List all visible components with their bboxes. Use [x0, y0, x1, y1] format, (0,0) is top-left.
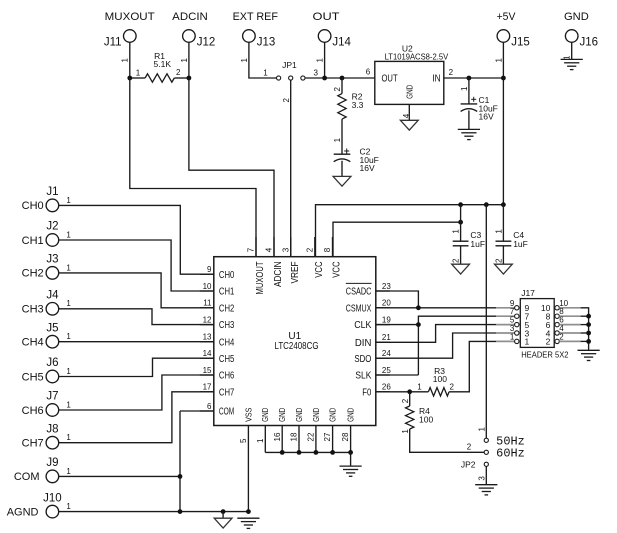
- ground C4: [495, 264, 513, 274]
- pin 5 VSS U1 bottom stub: [247, 426, 249, 512]
- svg-text:12: 12: [203, 315, 212, 324]
- connector J4: [46, 303, 59, 316]
- wire MUXOUT net: [130, 78, 256, 257]
- pin 19 CLK U1 right stub: [376, 324, 390, 326]
- jumper JP2 pin 1: [484, 438, 488, 442]
- svg-text:1: 1: [401, 429, 410, 434]
- pin 16 GND U1 bottom stub: [281, 426, 283, 453]
- svg-text:1: 1: [66, 332, 71, 341]
- junction GND bus: [330, 450, 335, 455]
- pin 2 J17 right stub: [559, 340, 580, 342]
- pin 10 J17 circle: [555, 306, 559, 310]
- svg-text:4: 4: [402, 113, 411, 118]
- pin 12 CH3 U1 left stub: [200, 324, 214, 326]
- pin 4 J17 right stub: [559, 332, 580, 334]
- svg-text:GND: GND: [564, 11, 589, 23]
- connector J12: [183, 30, 196, 43]
- wire R2 top lead: [341, 78, 343, 94]
- wire CH3 net: [59, 309, 214, 325]
- junction J17 bus: [586, 331, 591, 336]
- connector J10: [46, 505, 59, 518]
- pin 7 J17 left stub: [496, 315, 515, 317]
- svg-text:100: 100: [433, 374, 447, 384]
- ground C3: [452, 264, 470, 274]
- wire J12 to R1 node: [188, 42, 190, 78]
- pin 9 CH0 U1 left stub: [200, 273, 214, 275]
- svg-text:OUT: OUT: [313, 11, 340, 23]
- svg-text:J11: J11: [104, 36, 122, 48]
- junction C1 node: [467, 76, 472, 81]
- svg-text:21: 21: [382, 333, 391, 342]
- svg-text:CH3: CH3: [219, 320, 235, 331]
- svg-text:F0: F0: [362, 387, 371, 398]
- pin 5 J17 left stub: [496, 324, 515, 326]
- wire JP1 pin2 to VREF: [290, 80, 292, 257]
- pin 26 F0 U1 right stub: [376, 391, 390, 393]
- wire J17 pin to bus: [581, 332, 589, 334]
- pin 3 J17 left stub: [496, 332, 515, 334]
- wire C3 bottom lead: [460, 246, 462, 264]
- svg-text:CH7: CH7: [219, 387, 235, 398]
- connector J2: [46, 234, 59, 247]
- wire J14 down: [324, 42, 326, 78]
- svg-text:J6: J6: [46, 357, 58, 369]
- svg-text:SLK: SLK: [355, 371, 371, 382]
- svg-text:3: 3: [478, 476, 487, 481]
- jumper JP1 pin 2: [289, 76, 293, 80]
- svg-text:J4: J4: [46, 290, 59, 302]
- junction AGND ground: [221, 509, 226, 514]
- svg-text:16: 16: [273, 432, 282, 441]
- svg-text:1: 1: [510, 332, 515, 341]
- wire J11 to R1 node: [129, 42, 131, 78]
- svg-text:16V: 16V: [479, 112, 494, 122]
- resistor R4: [406, 406, 414, 429]
- svg-text:19: 19: [382, 315, 391, 324]
- svg-text:VREF: VREF: [290, 262, 301, 284]
- pin 11 CH2 U1 left stub: [200, 307, 214, 309]
- wire R4 to JP2: [410, 429, 485, 452]
- junction J17 bus: [586, 339, 591, 344]
- connector J16: [565, 30, 578, 43]
- svg-text:LTC2408CG: LTC2408CG: [275, 341, 319, 352]
- svg-text:COM: COM: [14, 471, 40, 483]
- svg-text:J12: J12: [197, 36, 216, 48]
- junction +5V node: [501, 76, 506, 81]
- svg-text:ADCIN: ADCIN: [273, 262, 284, 288]
- wire VCC rail lower: [333, 222, 461, 257]
- svg-text:CH1: CH1: [219, 287, 235, 298]
- wire R2 to C2: [341, 119, 343, 154]
- pin 6 J17 circle: [555, 322, 559, 326]
- svg-text:OUT: OUT: [382, 73, 398, 84]
- svg-text:8: 8: [323, 247, 332, 252]
- svg-text:GND: GND: [311, 408, 321, 422]
- svg-text:1: 1: [66, 400, 71, 409]
- connector J14: [318, 30, 331, 43]
- svg-text:CH5: CH5: [219, 354, 235, 365]
- svg-text:20: 20: [382, 299, 391, 308]
- pin 21 DIN U1 right stub: [376, 341, 390, 343]
- pin 3 VREF U1 top stub: [290, 237, 292, 257]
- svg-text:2: 2: [282, 98, 291, 103]
- svg-text:27: 27: [323, 432, 332, 441]
- svg-text:J14: J14: [332, 36, 351, 48]
- svg-text:1uF: 1uF: [470, 239, 485, 249]
- wire SLK net: [376, 374, 419, 376]
- connector J5: [46, 335, 59, 348]
- svg-text:4: 4: [265, 247, 274, 252]
- wire COM vertical: [179, 411, 181, 512]
- jumper JP2 pin 3: [484, 462, 488, 466]
- svg-text:2: 2: [449, 68, 454, 77]
- wire ADCIN net: [189, 78, 274, 257]
- svg-text:1: 1: [256, 438, 265, 443]
- wire C1 to ground: [468, 111, 470, 130]
- svg-text:CH5: CH5: [22, 371, 44, 383]
- pin 13 CH4 U1 left stub: [200, 341, 214, 343]
- svg-text:HEADER 5X2: HEADER 5X2: [521, 351, 569, 360]
- svg-text:EXT REF: EXT REF: [233, 11, 279, 23]
- svg-text:J9: J9: [46, 457, 58, 469]
- svg-text:60Hz: 60Hz: [496, 448, 525, 461]
- svg-text:25: 25: [382, 366, 391, 375]
- wire R4 top lead: [409, 392, 411, 406]
- ground U1 GND: [340, 465, 362, 467]
- svg-text:MUXOUT: MUXOUT: [255, 262, 266, 295]
- junction GND bus: [348, 450, 353, 455]
- connector J8: [46, 436, 59, 449]
- ground C2: [333, 176, 351, 186]
- pin 7 J17 circle: [515, 314, 519, 318]
- pin 1 GND U1 bottom stub: [264, 426, 266, 453]
- wire U2 IN to +5V: [444, 77, 504, 79]
- wire DIN net: [376, 325, 496, 343]
- junction AGND/COM: [178, 509, 183, 514]
- connector J7: [46, 404, 59, 417]
- junction C3 lower rail: [458, 220, 463, 225]
- svg-text:6: 6: [366, 68, 371, 77]
- capacitor C4: [496, 240, 512, 242]
- svg-text:IN: IN: [432, 73, 440, 84]
- svg-text:16V: 16V: [360, 163, 375, 173]
- pin 1 J17 left stub: [496, 340, 515, 342]
- pin 20 CSMUX U1 right stub: [376, 307, 390, 309]
- svg-text:JP1: JP1: [282, 60, 297, 70]
- svg-text:6: 6: [207, 402, 212, 411]
- svg-text:AGND: AGND: [7, 506, 39, 518]
- pin 15 CH6 U1 left stub: [200, 374, 214, 376]
- svg-text:GND: GND: [260, 408, 270, 422]
- junction J11/R1: [127, 76, 132, 81]
- resistor R2: [338, 94, 346, 120]
- plus sign C2: [344, 150, 349, 152]
- wire J16 to ground: [571, 42, 573, 59]
- svg-text:2: 2: [176, 68, 181, 77]
- pin 9 J17 left stub: [496, 307, 515, 309]
- svg-text:CH6: CH6: [22, 405, 44, 417]
- svg-text:1: 1: [66, 367, 71, 376]
- wire J17 pin to bus: [581, 324, 589, 326]
- junction CLK/SLK: [416, 322, 421, 327]
- pin 10 CH1 U1 left stub: [200, 290, 214, 292]
- wire CH0 net: [59, 205, 214, 274]
- wire F0 net: [376, 391, 429, 393]
- svg-text:1: 1: [478, 427, 487, 432]
- pin 4 J17 circle: [555, 331, 559, 335]
- svg-text:2: 2: [333, 87, 342, 92]
- svg-text:23: 23: [382, 282, 391, 291]
- svg-text:1: 1: [494, 229, 503, 234]
- wire J17 pin7 link: [418, 316, 496, 375]
- svg-text:22: 22: [307, 432, 316, 441]
- wire CLK net: [376, 324, 419, 326]
- svg-text:GND: GND: [277, 408, 287, 422]
- svg-text:1: 1: [66, 502, 71, 511]
- svg-text:J5: J5: [46, 322, 58, 334]
- svg-text:1: 1: [417, 383, 422, 392]
- svg-text:J17: J17: [521, 288, 535, 298]
- pin 27 GND U1 bottom stub: [332, 426, 334, 453]
- svg-text:MUXOUT: MUXOUT: [105, 11, 155, 23]
- svg-text:GND: GND: [346, 408, 356, 422]
- svg-text:CH3: CH3: [22, 304, 44, 316]
- svg-text:5.1K: 5.1K: [154, 59, 172, 69]
- pin 1 J17 circle: [515, 339, 519, 343]
- svg-text:1: 1: [66, 467, 71, 476]
- wire R1 right lead: [174, 77, 189, 79]
- svg-text:5: 5: [239, 438, 248, 443]
- junction GND bus: [314, 450, 319, 455]
- svg-text:CH0: CH0: [219, 270, 235, 281]
- svg-text:VCC: VCC: [314, 262, 325, 278]
- svg-text:1: 1: [136, 69, 141, 78]
- svg-text:1: 1: [240, 58, 249, 63]
- wire J17 pin to bus: [581, 315, 589, 317]
- pin 24 SDO U1 right stub: [376, 357, 390, 359]
- pin 18 GND U1 bottom stub: [298, 426, 300, 453]
- ground AGND: [214, 518, 232, 528]
- jumper JP1 pin 1: [277, 76, 281, 80]
- svg-text:J8: J8: [46, 423, 58, 435]
- svg-text:1: 1: [525, 337, 530, 347]
- wire JP1 pin3 to U2 OUT: [305, 77, 375, 79]
- svg-text:DIN: DIN: [355, 338, 372, 349]
- junction CSADC/CSMUX: [416, 305, 421, 310]
- pin 3 J17 circle: [515, 331, 519, 335]
- junction AGND/VSS: [246, 509, 251, 514]
- connector J13: [243, 30, 256, 43]
- svg-text:J3: J3: [46, 254, 58, 266]
- svg-text:VSS: VSS: [243, 407, 253, 421]
- wire SDO net: [376, 333, 496, 358]
- resistor R1: [145, 74, 174, 82]
- svg-text:2: 2: [401, 398, 410, 403]
- svg-text:CH0: CH0: [22, 200, 44, 212]
- wire CSMUX net: [376, 307, 496, 309]
- ground U2: [400, 120, 418, 130]
- svg-text:50Hz: 50Hz: [496, 435, 525, 448]
- svg-text:1: 1: [121, 58, 130, 63]
- svg-text:1: 1: [180, 58, 189, 63]
- pin 14 CH5 U1 left stub: [200, 357, 214, 359]
- wire GND bus: [265, 451, 350, 453]
- svg-text:13: 13: [203, 333, 212, 342]
- wire CH2 net: [59, 273, 214, 308]
- wire GND bus to ground: [350, 452, 352, 466]
- IC U2 box: [375, 61, 444, 104]
- svg-text:11: 11: [203, 299, 212, 308]
- svg-text:1: 1: [66, 299, 71, 308]
- svg-text:1: 1: [263, 68, 268, 77]
- wire U2 GND pin: [408, 104, 410, 120]
- svg-text:1: 1: [333, 137, 342, 142]
- wire R1 left lead: [130, 77, 145, 79]
- connector J11: [124, 30, 137, 43]
- wire +5V to JP2: [485, 205, 487, 438]
- svg-text:1: 1: [66, 263, 71, 272]
- svg-text:JP2: JP2: [461, 459, 476, 469]
- svg-text:2: 2: [305, 247, 314, 252]
- svg-text:26: 26: [382, 383, 391, 392]
- svg-text:GND: GND: [294, 408, 304, 422]
- svg-text:9: 9: [207, 265, 212, 274]
- junction J17 bus: [586, 322, 591, 327]
- junction COM: [178, 474, 183, 479]
- pin 7 MUXOUT U1 top stub: [255, 237, 257, 257]
- svg-text:CSMUX: CSMUX: [346, 303, 372, 314]
- svg-text:7: 7: [247, 247, 256, 252]
- pin 5 J17 circle: [515, 322, 519, 326]
- capacitor C2: [334, 153, 351, 155]
- svg-text:CH2: CH2: [22, 268, 44, 280]
- jumper JP2 pin 2: [484, 450, 488, 454]
- svg-text:J16: J16: [580, 36, 599, 48]
- pin 10 J17 right stub: [559, 307, 580, 309]
- pin 4 ADCIN U1 top stub: [273, 237, 275, 257]
- pin 8 J17 right stub: [559, 315, 580, 317]
- pin 8 VCC U1 top stub: [332, 237, 334, 257]
- svg-text:+5V: +5V: [497, 11, 516, 23]
- overline CSADC: [346, 282, 372, 284]
- pin 6 COM U1 left stub: [200, 410, 214, 412]
- connector J3: [46, 267, 59, 280]
- junction GND bus: [280, 450, 285, 455]
- pin 6 J17 right stub: [559, 324, 580, 326]
- svg-text:CH4: CH4: [219, 337, 235, 348]
- wire CH6 net: [59, 375, 214, 410]
- svg-text:CH1: CH1: [22, 235, 44, 247]
- junction GND bus: [297, 450, 302, 455]
- junction J17 bus: [586, 314, 591, 319]
- svg-text:15: 15: [203, 366, 212, 375]
- pin 9 J17 circle: [515, 306, 519, 310]
- junction rail JP2 feed: [484, 202, 489, 207]
- svg-text:CSADC: CSADC: [346, 287, 372, 298]
- pin 2 VCC U1 top stub: [314, 237, 316, 257]
- wire J17 pin to bus: [581, 340, 589, 342]
- connector J6: [46, 370, 59, 383]
- wire COM net: [59, 475, 180, 477]
- pin 23 CSADC U1 right stub: [376, 290, 390, 292]
- svg-text:ADCIN: ADCIN: [172, 11, 208, 23]
- junction rail C3: [458, 202, 463, 207]
- junction J14 node: [322, 76, 327, 81]
- pin 22 GND U1 bottom stub: [315, 426, 317, 453]
- svg-text:24: 24: [382, 349, 391, 358]
- wire +5V J15 down: [502, 42, 504, 204]
- wire C3 top lead: [460, 205, 462, 242]
- wire C2 to ground: [341, 161, 343, 177]
- wire CH5 net: [59, 358, 214, 376]
- svg-text:1: 1: [66, 196, 71, 205]
- wire C4 top lead: [502, 205, 504, 242]
- svg-text:GND: GND: [404, 85, 414, 99]
- connector J9: [46, 470, 59, 483]
- svg-text:VCC: VCC: [332, 262, 343, 278]
- svg-text:3: 3: [313, 68, 318, 77]
- svg-text:17: 17: [203, 383, 212, 392]
- wire CH7 net: [59, 392, 214, 443]
- svg-text:1: 1: [460, 86, 469, 91]
- svg-text:SDO: SDO: [354, 354, 371, 365]
- ground J16: [561, 58, 583, 60]
- resistor R3: [428, 388, 449, 396]
- svg-text:1: 1: [452, 229, 461, 234]
- wire AGND net: [59, 511, 249, 513]
- junction J12/R1: [187, 76, 192, 81]
- wire JP2 pin3 to ground: [485, 467, 487, 485]
- svg-text:1: 1: [66, 433, 71, 442]
- wire C4 bottom lead: [502, 246, 504, 264]
- wire CSADC net: [376, 291, 419, 308]
- svg-text:2: 2: [494, 258, 503, 263]
- svg-text:GND: GND: [328, 408, 338, 422]
- svg-text:CH7: CH7: [22, 438, 44, 450]
- svg-text:3.3: 3.3: [352, 100, 364, 110]
- svg-text:14: 14: [203, 349, 212, 358]
- svg-text:2: 2: [452, 258, 461, 263]
- svg-text:J7: J7: [46, 391, 58, 403]
- svg-text:1: 1: [66, 230, 71, 239]
- svg-text:J1: J1: [46, 186, 58, 198]
- svg-text:COM: COM: [219, 407, 234, 418]
- svg-text:2: 2: [467, 443, 472, 452]
- svg-text:1uF: 1uF: [513, 239, 528, 249]
- ground J17: [578, 349, 600, 351]
- wire AGND ground lead: [222, 512, 224, 519]
- svg-text:18: 18: [290, 432, 299, 441]
- pin 2 J17 circle: [555, 339, 559, 343]
- connector J17 box: [520, 299, 554, 348]
- svg-text:CLK: CLK: [354, 320, 371, 331]
- svg-text:CH4: CH4: [22, 337, 44, 349]
- junction rail +5V: [501, 202, 506, 207]
- svg-text:28: 28: [341, 432, 350, 441]
- IC U1 box: [214, 257, 376, 426]
- capacitor C1: [461, 103, 478, 105]
- wire J17 ground bus: [581, 308, 589, 351]
- ground C1: [458, 128, 480, 130]
- wire J13 down: [249, 42, 277, 78]
- wire CH4 net: [59, 341, 214, 343]
- svg-text:J15: J15: [511, 36, 530, 48]
- wire C1 top lead: [468, 78, 470, 104]
- pin 8 J17 circle: [555, 314, 559, 318]
- junction F0/R4: [407, 389, 412, 394]
- capacitor C3: [453, 240, 469, 242]
- svg-text:J10: J10: [43, 492, 62, 504]
